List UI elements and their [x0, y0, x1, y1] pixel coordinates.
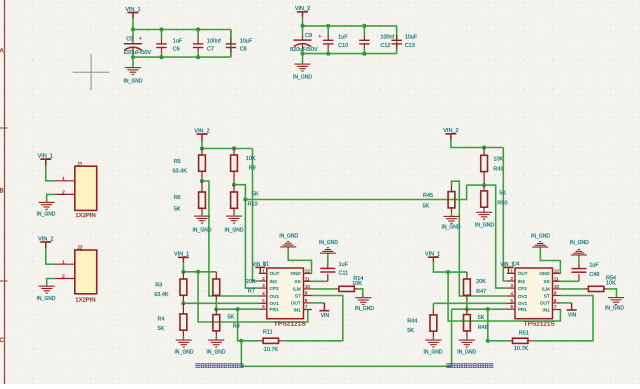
capacitor C8 10uF [226, 30, 253, 58]
svg-text:C12: C12 [380, 43, 390, 49]
svg-text:11: 11 [305, 276, 310, 281]
junction PR1 branch down (right) [486, 307, 490, 311]
svg-text:CP2: CP2 [270, 286, 280, 291]
wire U1 ILM to R14 [312, 288, 335, 290]
junction top bus at C6 [159, 27, 163, 31]
capacitor C7 100nf [193, 30, 221, 58]
svg-text:VIN_1: VIN_1 [425, 251, 440, 257]
U1 pin 5 OV1 [259, 298, 280, 306]
svg-text:VIN: VIN [568, 313, 577, 319]
svg-text:820uF/50V: 820uF/50V [124, 50, 152, 56]
svg-text:1uF: 1uF [589, 263, 599, 269]
wire VIN_2 to right divider bus [451, 140, 503, 148]
junction VIN_1 rail to IN1 branch (right) [446, 270, 450, 274]
text label dual-channel seamless switching supply (left) [196, 364, 243, 368]
wire U4 OUT pin 8 to VIN flag [561, 302, 572, 304]
svg-text:J2: J2 [77, 246, 83, 252]
wire R3/R4 tap to OV1 of U1 [183, 302, 258, 304]
U4 pin 4 OV2 [507, 291, 528, 299]
svg-text:ST: ST [295, 293, 301, 298]
svg-text:R5: R5 [174, 159, 181, 165]
svg-text:IN_GND: IN_GND [442, 225, 461, 231]
svg-text:2: 2 [62, 190, 65, 196]
svg-text:GND: GND [290, 271, 301, 276]
power flag VIN_1 (right lower) [425, 251, 440, 262]
ground IN_GND below C9 [293, 54, 312, 81]
svg-text:10.7K: 10.7K [264, 347, 279, 353]
svg-text:J1: J1 [77, 162, 83, 168]
U4 pin 7 IN1 [543, 305, 561, 313]
resistor R50 5K [481, 185, 508, 212]
svg-text:R47: R47 [476, 289, 486, 295]
junction VIN_1 rail at R3 [181, 270, 185, 274]
power flag VIN_1 at U1 pin 1 [252, 262, 266, 274]
ground IN_GND below R48 [457, 340, 476, 356]
wire PR1 net right channel [452, 308, 507, 310]
svg-text:IN_GND: IN_GND [457, 350, 476, 356]
connector J1 1X2PIN [55, 162, 97, 219]
svg-text:OV1: OV1 [518, 301, 528, 306]
junction bottom bus at C5 [131, 55, 135, 59]
svg-text:12: 12 [554, 268, 560, 273]
wire R45 top to U4 OV2 [452, 181, 507, 296]
svg-text:10.7K: 10.7K [514, 346, 529, 352]
junction CP2 net to shared wire [243, 197, 247, 201]
junction R49/R50 midpoint [482, 183, 486, 187]
power flag VIN output (right) [567, 303, 577, 319]
svg-text:R51: R51 [519, 330, 529, 336]
wire VIN_2 to J2 pin 1 [46, 248, 55, 264]
wire bottom bus cap bank 2 [303, 53, 397, 55]
resistor R49 10K [481, 148, 504, 186]
svg-text:10: 10 [554, 284, 560, 289]
svg-text:5K: 5K [158, 326, 165, 332]
wire R7 bottom to PR1 net [215, 300, 217, 309]
svg-text:10uF: 10uF [405, 35, 418, 41]
resistor R8 5K [213, 309, 240, 340]
svg-text:TPS2121S: TPS2121S [274, 321, 306, 327]
svg-text:C7: C7 [207, 47, 214, 53]
U4 pin 8 OUT [540, 298, 561, 306]
svg-text:100nf: 100nf [207, 38, 221, 44]
ground IN_GND below C5 [124, 57, 143, 85]
power flag VIN_2 (cap bank 2) [295, 6, 310, 17]
wire U4 SS pin to C48 [561, 280, 579, 282]
U1 pin 12 GND [290, 268, 312, 276]
wire R44 top to U4 OV1 [433, 302, 507, 304]
svg-text:1X2PIN: 1X2PIN [75, 298, 95, 304]
wire VIN_1 to top bus [132, 18, 134, 30]
capacitor C13 10uF [392, 26, 418, 54]
wire top bus cap bank 2 [303, 25, 397, 27]
svg-text:B: B [0, 189, 4, 195]
svg-text:+: + [139, 36, 142, 42]
svg-text:10uF: 10uF [240, 38, 253, 44]
svg-text:C48: C48 [589, 272, 599, 278]
ground IN_GND below J1 [37, 202, 56, 217]
svg-text:IN2: IN2 [518, 279, 526, 284]
junction top bus at C10 [326, 24, 330, 28]
svg-text:IN_GND: IN_GND [531, 234, 550, 240]
wire U1 SS pin to C11 [312, 280, 328, 282]
svg-text:R48: R48 [478, 325, 488, 331]
origin crosshair [73, 54, 110, 90]
wire U4 ILM to R54 [561, 288, 585, 290]
resistor R5 63.4K [173, 149, 206, 182]
sheet border frame [0, 0, 8, 384]
resistor R45 5K [423, 185, 455, 216]
svg-text:1uF: 1uF [339, 262, 349, 268]
junction top bus at C5 [131, 27, 135, 31]
wire R14 to ground [358, 289, 363, 298]
junction bottom bus at C6 [159, 55, 163, 59]
wire right bus corner down to U4 IN2 [503, 148, 507, 282]
wire R51 to U4 ST [532, 296, 593, 341]
wire PR1 branch down to R11 node [238, 309, 242, 341]
junction bottom bus at C9 [300, 52, 304, 56]
U4 pin 10 ILM [542, 284, 561, 292]
resistor R48 5K [464, 309, 488, 340]
svg-text:5K: 5K [499, 191, 506, 197]
ground IN_GND below R14 [355, 298, 374, 312]
resistor R6 5K [174, 181, 206, 216]
svg-text:10: 10 [305, 284, 311, 289]
wire bottom bus cap bank 1 [133, 56, 231, 58]
svg-text:820uF/50V: 820uF/50V [290, 47, 318, 53]
svg-text:OV2: OV2 [518, 294, 528, 299]
svg-text:C: C [0, 338, 4, 344]
wire U1 OUT pin 8 to VIN flag [312, 302, 325, 304]
U4 pin 3 CP2 [507, 283, 527, 291]
svg-text:5K: 5K [423, 204, 430, 210]
svg-text:C11: C11 [339, 271, 349, 277]
svg-text:ST: ST [544, 293, 550, 298]
U4 pin 12 GND [539, 268, 561, 276]
svg-text:TPS2121S: TPS2121S [524, 321, 555, 327]
svg-text:IN2: IN2 [270, 279, 278, 284]
U1 pin 1 OUT [259, 268, 280, 276]
junction top bus at C9 [300, 24, 304, 28]
svg-text:C13: C13 [405, 43, 415, 49]
U4 pin 5 OV1 [507, 298, 528, 306]
U4 pin 9 ST [544, 291, 561, 299]
svg-text:IN_GND: IN_GND [225, 227, 244, 233]
wire C8 right drop [230, 30, 232, 58]
svg-text:+: + [318, 34, 321, 40]
wire VIN_1 rail right channel [433, 262, 467, 272]
capacitor C11 1uF [320, 262, 348, 281]
U4 pin 2 IN2 [507, 276, 525, 284]
junction R9/R10 midpoint [232, 183, 236, 187]
svg-text:OUT: OUT [540, 301, 550, 306]
ground IN_GND below R50 [475, 212, 494, 228]
svg-text:R6: R6 [174, 195, 181, 201]
capacitor C5 820uF/50V polarized [124, 30, 152, 58]
svg-text:R11: R11 [263, 330, 273, 336]
svg-text:R7: R7 [248, 288, 255, 294]
power flag VIN_1 (cap bank 1) [125, 7, 140, 18]
ground IN_GND below R45 [442, 216, 461, 230]
svg-text:CP2: CP2 [518, 286, 528, 291]
svg-text:5K: 5K [407, 328, 414, 334]
svg-text:11: 11 [554, 276, 559, 281]
text label dual-channel seamless switching supply (right) [447, 364, 493, 368]
op-amp U4 TPS2121S body [513, 261, 555, 327]
svg-text:20K: 20K [476, 279, 486, 285]
svg-text:20K: 20K [246, 279, 256, 285]
resistor R4 5K [158, 303, 187, 340]
ground IN_GND above U1 (inverted) [279, 234, 298, 247]
resistor R3 63.4K [154, 272, 187, 304]
svg-text:C9: C9 [305, 33, 312, 39]
svg-text:IN1: IN1 [294, 307, 302, 312]
svg-text:ILM: ILM [542, 287, 550, 292]
wire VIN_1 rail to U4 IN1 [448, 272, 560, 321]
U4 pin 1 OUT [507, 268, 528, 276]
resistor R10 5K [231, 185, 259, 216]
resistor R47 20K [464, 272, 487, 300]
ground IN_GND above C48 (inverted) [570, 240, 589, 255]
svg-text:OV1: OV1 [270, 301, 280, 306]
wire R11 to U1 ST [283, 296, 343, 341]
svg-text:1X2PIN: 1X2PIN [75, 213, 95, 219]
svg-text:IN_GND: IN_GND [319, 240, 338, 246]
ground IN_GND below R54 [605, 298, 624, 312]
U1 pin 4 OV2 [259, 291, 280, 299]
svg-text:IN_GND: IN_GND [193, 227, 212, 233]
junction bottom bus at C12 [362, 52, 366, 56]
svg-text:2: 2 [62, 274, 65, 280]
wire R5/R6 tap to OV2 of U1 [202, 181, 259, 296]
U1 pin 11 SS [295, 276, 312, 284]
wire C11 top to ground [327, 253, 329, 263]
resistor R14 10K [335, 276, 363, 292]
svg-text:5K: 5K [252, 192, 259, 198]
capacitor C12 100nf [359, 26, 394, 54]
svg-text:IN_GND: IN_GND [570, 240, 589, 246]
power flag VIN_2 (right) [443, 128, 458, 140]
junction R51 node [486, 339, 490, 343]
junction VIN_1 rail to IN1 branch [196, 270, 200, 274]
junction at R49 top [482, 145, 486, 149]
ground IN_GND above U4 (inverted) [531, 234, 550, 247]
svg-text:SS: SS [295, 279, 301, 284]
U4 pin 11 SS [544, 276, 561, 284]
capacitor C6 1uF [156, 30, 183, 58]
junction R3/R4 midpoint OV1 net [181, 301, 185, 305]
wire shared CP2 net to right channel [245, 185, 466, 199]
wire PR1 branch down to R51 [487, 309, 489, 341]
svg-text:IN1: IN1 [543, 307, 551, 312]
U1 pin 8 OUT [291, 298, 312, 306]
U1 pin 10 ILM [293, 284, 312, 292]
svg-text:1: 1 [62, 259, 65, 265]
U1 pin 3 CP2 [259, 283, 279, 291]
wire R9/R10 tap to CP2 of U1 [234, 185, 259, 288]
junction PR1 net branch down [236, 307, 240, 311]
ground IN_GND above C11 (inverted) [319, 240, 338, 253]
svg-text:OUT: OUT [270, 271, 280, 276]
svg-text:IN_GND: IN_GND [124, 79, 143, 85]
svg-text:R3: R3 [155, 283, 162, 289]
svg-text:IN_GND: IN_GND [293, 75, 312, 81]
svg-text:5K: 5K [478, 315, 485, 321]
power flag VIN_1 (left lower) [174, 252, 189, 262]
svg-text:R4: R4 [158, 316, 165, 322]
svg-text:R50: R50 [497, 200, 507, 206]
ground IN_GND below R4 [175, 340, 194, 356]
ground IN_GND below R6 [193, 216, 212, 233]
power flag VIN output (left) [319, 303, 329, 319]
ground IN_GND below J2 [37, 286, 56, 302]
capacitor C9 820uF/50V polarized [290, 26, 321, 54]
op-amp U1 TPS2121S body [263, 261, 306, 327]
wire VIN_1 rail to R7 top [182, 262, 184, 272]
wire U1 GND pin to ground [288, 247, 312, 273]
junction bottom bus at C10 [326, 52, 330, 56]
svg-text:C8: C8 [240, 47, 247, 53]
junction bottom bus at C7 [196, 55, 200, 59]
svg-text:OV2: OV2 [270, 294, 280, 299]
svg-text:1: 1 [62, 176, 65, 182]
resistor R51 10.7K [488, 330, 532, 351]
svg-text:R44: R44 [407, 319, 417, 325]
svg-text:OUT: OUT [518, 271, 528, 276]
svg-text:C5: C5 [126, 37, 133, 43]
svg-text:IN_GND: IN_GND [279, 234, 298, 240]
svg-text:1uF: 1uF [173, 38, 183, 44]
svg-text:IN_GND: IN_GND [355, 306, 374, 312]
wire R54 to ground [608, 289, 617, 298]
svg-text:10K: 10K [606, 281, 616, 287]
svg-text:A: A [0, 49, 4, 55]
svg-text:R10: R10 [248, 202, 258, 208]
svg-text:10K: 10K [246, 156, 256, 162]
wire U4 GND pin to ground [540, 247, 561, 273]
wire C48 top to ground [578, 255, 580, 264]
wire R11 node down to bottom PR link [241, 309, 451, 366]
svg-text:R8: R8 [233, 324, 240, 330]
junction R11 node [239, 339, 243, 343]
svg-text:ILM: ILM [293, 287, 301, 292]
ground IN_GND below R10 [225, 216, 244, 233]
junction R7/R8 midpoint PR1 net [214, 307, 218, 311]
svg-text:63.4K: 63.4K [173, 168, 188, 174]
wire R49/R50 tap to U4 CP2 and shared net [467, 185, 507, 288]
capacitor C48 1uF [571, 263, 599, 282]
U1 pin 2 IN2 [259, 276, 277, 284]
U1 pin 9 ST [295, 291, 312, 299]
svg-text:10K: 10K [352, 281, 362, 287]
power flag VIN_1 at U4 pin 1 [500, 262, 514, 274]
resistor R44 5K [407, 309, 437, 340]
wire VIN_1 to J1 pin 1 [46, 166, 55, 181]
wire J2 pin 2 to ground [47, 279, 55, 287]
svg-text:VIN: VIN [321, 313, 330, 319]
svg-text:63.4K: 63.4K [154, 292, 169, 298]
resistor R11 10.7K [241, 330, 283, 354]
wire VIN_2 to top bus [302, 17, 304, 26]
svg-text:10K: 10K [493, 156, 503, 162]
svg-text:IN_GND: IN_GND [175, 350, 194, 356]
svg-text:IN_GND: IN_GND [475, 223, 494, 229]
power flag VIN_2 (left dividers) [194, 128, 209, 141]
resistor R7 20K [213, 272, 256, 301]
wire PR1 net to U1 PR1 [216, 308, 258, 310]
svg-text:C10: C10 [338, 43, 348, 49]
wire C13 right drop [396, 26, 398, 54]
svg-text:GND: GND [539, 271, 550, 276]
svg-text:IN_GND: IN_GND [207, 350, 226, 356]
svg-text:OUT: OUT [291, 301, 301, 306]
svg-text:5K: 5K [174, 207, 181, 213]
wire J1 pin 2 to ground [47, 194, 55, 202]
junction at R9 top [232, 146, 236, 150]
wire R47 bottom to PR1 net (right) [466, 300, 468, 309]
svg-text:IN_GND: IN_GND [37, 296, 56, 302]
svg-text:C6: C6 [173, 47, 180, 53]
wire top bus cap bank 1 [133, 29, 231, 31]
svg-text:PR1: PR1 [518, 307, 528, 312]
resistor R54 10K [585, 275, 617, 291]
U1 pin 6 PR1 [259, 304, 279, 312]
power flag VIN_1 at J1 [38, 154, 53, 166]
power flag VIN_2 at J2 [38, 236, 53, 248]
svg-text:5K: 5K [228, 314, 235, 320]
junction R5/R6 midpoint [200, 179, 204, 183]
wire VIN_1 rail to U1 IN1 [198, 272, 308, 322]
ground IN_GND below R44 [424, 340, 443, 355]
U1 pin 7 IN1 [294, 305, 312, 313]
ground IN_GND below R8 [207, 340, 226, 356]
connector J2 1X2PIN [55, 246, 97, 304]
svg-text:IN_GND: IN_GND [424, 349, 443, 355]
junction top bus at C7 [196, 27, 200, 31]
svg-text:R45: R45 [423, 193, 433, 199]
junction at R5 top [200, 146, 204, 150]
svg-text:R9: R9 [249, 166, 256, 172]
wire bus corner down to U1 IN2 [253, 149, 259, 282]
svg-text:IN_GND: IN_GND [605, 306, 624, 312]
svg-text:12: 12 [305, 268, 311, 273]
resistor R9 10K [231, 149, 256, 185]
svg-text:SS: SS [544, 279, 550, 284]
wire VIN_2 down to divider bus [201, 141, 203, 149]
capacitor C10 1uF [323, 26, 348, 54]
svg-text:1uF: 1uF [338, 35, 348, 41]
junction R47/R48 midpoint [465, 307, 469, 311]
svg-text:IN_GND: IN_GND [37, 212, 56, 218]
U4 pin 6 PR1 [507, 304, 527, 312]
svg-text:R49: R49 [493, 166, 503, 172]
junction top bus at C12 [362, 24, 366, 28]
wire divider top bus [202, 148, 253, 150]
svg-text:PR1: PR1 [270, 307, 280, 312]
